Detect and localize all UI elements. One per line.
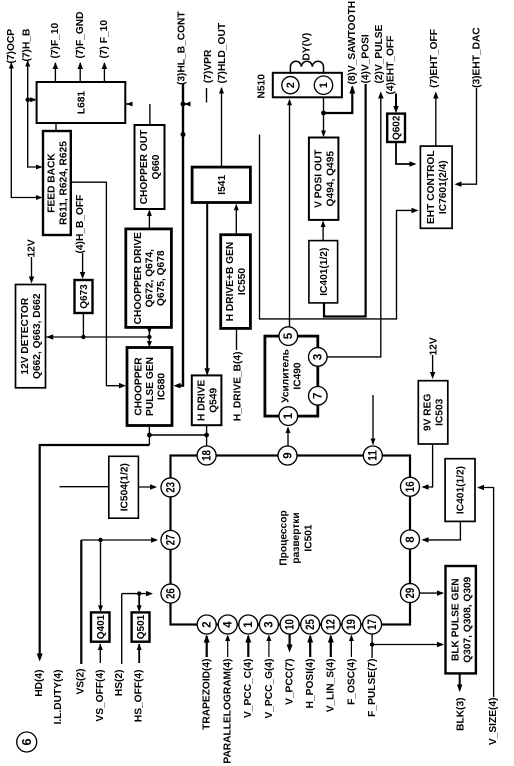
svg-text:Q675, Q678: Q675, Q678: [156, 250, 167, 306]
svg-text:FEED BACK: FEED BACK: [47, 153, 58, 213]
svg-text:F_OSC(4): F_OSC(4): [346, 659, 357, 705]
svg-text:2: 2: [201, 621, 213, 627]
svg-text:10: 10: [284, 619, 296, 630]
svg-text:(7) F_10: (7) F_10: [99, 20, 110, 59]
svg-text:(7)H_B: (7)H_B: [21, 29, 32, 62]
svg-text:N510: N510: [256, 74, 267, 99]
svg-text:25: 25: [305, 619, 317, 630]
svg-text:HS_OFF(4): HS_OFF(4): [134, 670, 145, 723]
svg-text:EHT CONTROL: EHT CONTROL: [426, 150, 437, 224]
svg-text:Q660: Q660: [151, 154, 162, 179]
svg-text:6: 6: [19, 738, 34, 745]
svg-text:V_SIZE(4): V_SIZE(4): [488, 698, 499, 746]
svg-text:16: 16: [405, 481, 417, 492]
svg-text:PULSE GEN: PULSE GEN: [145, 357, 156, 416]
svg-text:12V DETECTOR: 12V DETECTOR: [20, 297, 31, 374]
svg-text:(7)F_10: (7)F_10: [50, 22, 61, 58]
svg-text:9: 9: [282, 452, 294, 458]
svg-text:развертки: развертки: [291, 512, 302, 563]
svg-text:IC501: IC501: [304, 524, 315, 552]
svg-text:Усилитель: Усилитель: [281, 349, 292, 403]
svg-text:PARALLELOGRAM(4): PARALLELOGRAM(4): [223, 659, 234, 764]
svg-text:V POSI OUT: V POSI OUT: [313, 149, 324, 208]
svg-text:Q602: Q602: [392, 115, 403, 140]
svg-text:19: 19: [346, 619, 358, 630]
svg-text:Q494, Q495: Q494, Q495: [325, 151, 336, 207]
svg-text:F_PULSE(7): F_PULSE(7): [367, 659, 378, 717]
svg-text:5: 5: [283, 332, 295, 339]
svg-text:(4)V_POSI: (4)V_POSI: [361, 34, 372, 83]
svg-text:V_LIN_S(4): V_LIN_S(4): [326, 659, 337, 713]
svg-text:HS(2): HS(2): [114, 670, 125, 697]
svg-text:V_PCC_C(4): V_PCC_C(4): [243, 659, 254, 718]
svg-text:(3)HL_B_CONT: (3)HL_B_CONT: [176, 11, 187, 85]
svg-text:27: 27: [165, 535, 177, 546]
svg-text:CHOOPPER: CHOOPPER: [134, 357, 145, 416]
svg-text:DY(V): DY(V): [301, 33, 312, 61]
svg-text:IC504(1/2): IC504(1/2): [119, 463, 130, 511]
svg-text:CHOOPPER DRIVE: CHOOPPER DRIVE: [133, 232, 144, 324]
svg-text:(4)EHT_OFF: (4)EHT_OFF: [386, 36, 397, 95]
svg-text:1: 1: [243, 621, 255, 628]
svg-text:(7)EHT_OFF: (7)EHT_OFF: [429, 29, 440, 88]
svg-text:4: 4: [222, 621, 234, 628]
svg-text:HD(4): HD(4): [34, 670, 45, 697]
svg-text:VS_OFF(4): VS_OFF(4): [95, 670, 106, 722]
svg-text:12V: 12V: [428, 337, 439, 355]
svg-text:Q672, Q674,: Q672, Q674,: [144, 249, 155, 308]
svg-text:17: 17: [367, 619, 379, 630]
svg-text:26: 26: [165, 588, 177, 599]
svg-text:1: 1: [318, 82, 330, 88]
svg-text:H DRIVE+B GEN: H DRIVE+B GEN: [225, 242, 236, 322]
svg-text:I.L.DUTY(4): I.L.DUTY(4): [53, 670, 64, 725]
svg-text:11: 11: [368, 450, 380, 461]
svg-text:2: 2: [285, 82, 297, 88]
svg-text:12V: 12V: [26, 239, 37, 257]
svg-text:IC503: IC503: [435, 398, 446, 426]
svg-text:(7)HLD_OUT: (7)HLD_OUT: [217, 22, 228, 83]
svg-text:IC550: IC550: [237, 268, 248, 296]
svg-text:L681: L681: [77, 91, 88, 115]
svg-text:12: 12: [326, 619, 338, 630]
svg-text:H DRIVE: H DRIVE: [196, 379, 207, 421]
svg-text:Q549: Q549: [208, 388, 219, 413]
svg-text:3: 3: [313, 354, 325, 360]
svg-text:3: 3: [264, 621, 276, 627]
svg-text:BLK PULSE GEN: BLK PULSE GEN: [450, 578, 461, 661]
svg-text:V_PCC_G(4): V_PCC_G(4): [264, 659, 275, 719]
svg-text:23: 23: [165, 482, 177, 493]
svg-text:IC401(1/2): IC401(1/2): [456, 466, 467, 514]
svg-text:18: 18: [201, 450, 213, 461]
svg-text:(7)F_GND: (7)F_GND: [75, 12, 86, 59]
svg-text:(8)V_SAWTOOTH: (8)V_SAWTOOTH: [347, 1, 358, 85]
svg-text:(7)OCP: (7)OCP: [6, 29, 17, 64]
svg-text:8: 8: [405, 536, 417, 543]
svg-text:Q673: Q673: [79, 284, 90, 309]
svg-text:(4)H_B_OFF: (4)H_B_OFF: [75, 195, 86, 254]
svg-text:H_POSI(4): H_POSI(4): [305, 659, 316, 709]
svg-text:(7)VPR: (7)VPR: [203, 49, 214, 83]
svg-text:CHOPPER OUT: CHOPPER OUT: [139, 129, 150, 204]
svg-text:IC401(1/2): IC401(1/2): [319, 248, 330, 296]
svg-text:IC680: IC680: [157, 373, 168, 401]
svg-text:IC490: IC490: [293, 362, 304, 390]
svg-text:V_PCC(7): V_PCC(7): [285, 659, 296, 705]
svg-text:29: 29: [405, 588, 417, 599]
svg-text:9V REG: 9V REG: [423, 394, 434, 431]
svg-text:Процессор: Процессор: [279, 510, 290, 565]
svg-text:BLK(3): BLK(3): [455, 698, 466, 731]
svg-text:Q401: Q401: [96, 614, 107, 639]
svg-text:TRAPEZOID(4): TRAPEZOID(4): [202, 659, 213, 730]
svg-text:(2)V_PULSE: (2)V_PULSE: [374, 24, 385, 83]
svg-text:R611, R624, R625: R611, R624, R625: [59, 141, 70, 225]
svg-text:Q307, Q308, Q309: Q307, Q308, Q309: [462, 576, 473, 662]
svg-text:I541: I541: [217, 175, 228, 195]
svg-text:IC7601(2/4): IC7601(2/4): [438, 160, 449, 214]
svg-text:Q501: Q501: [136, 614, 147, 639]
svg-text:H_DRIVE_B(4): H_DRIVE_B(4): [232, 352, 243, 422]
svg-text:7: 7: [313, 393, 325, 399]
svg-text:Q662, Q663, D662: Q662, Q663, D662: [32, 293, 43, 379]
svg-text:VS(2): VS(2): [76, 669, 87, 695]
svg-text:(3)EHT_DAC: (3)EHT_DAC: [471, 27, 482, 88]
svg-text:1: 1: [283, 412, 295, 419]
